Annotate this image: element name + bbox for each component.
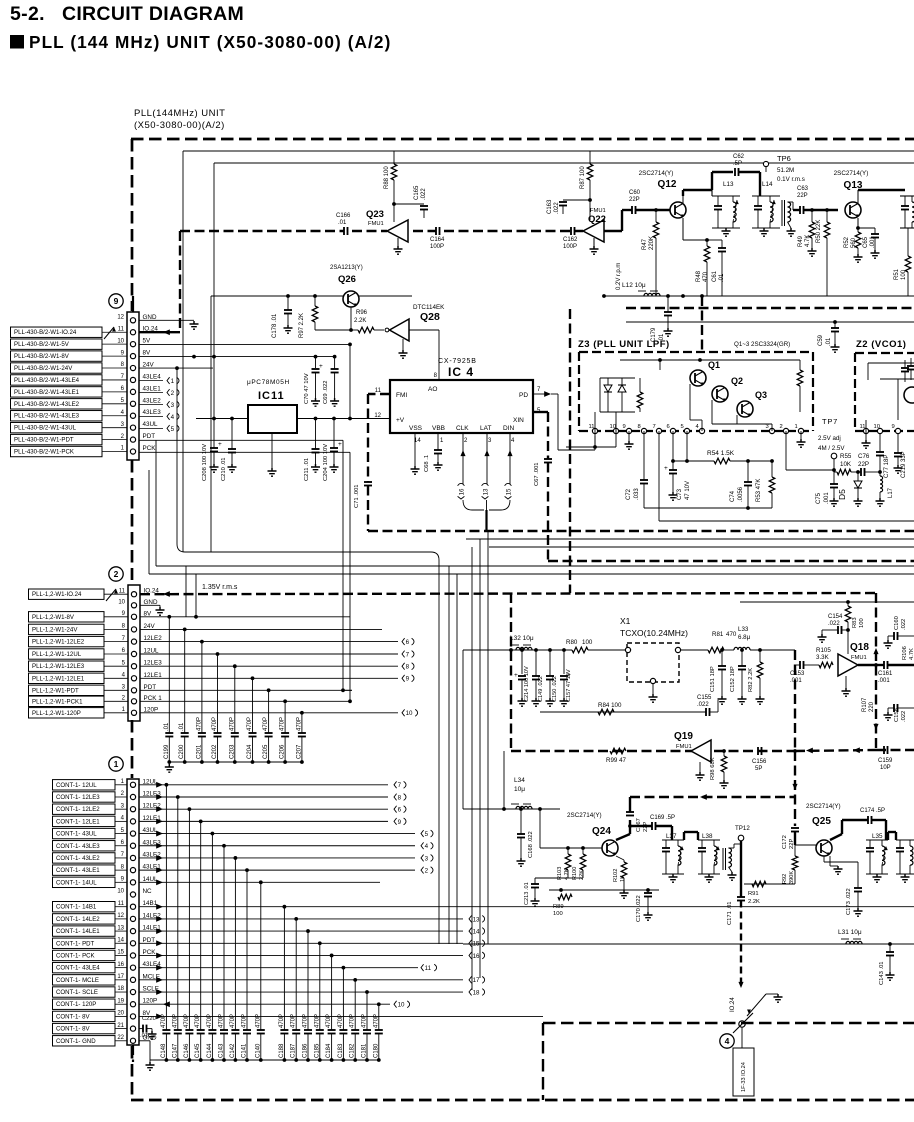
svg-text:R82 2.2K: R82 2.2K [748,668,754,692]
svg-text:C153: C153 [790,671,805,677]
connector 1 pin 7 (43LE2) [130,855,135,860]
svg-text:2: 2 [425,868,429,875]
svg-text:+V: +V [396,417,405,424]
svg-text:C140: C140 [255,1043,261,1058]
resistor R102 1K [616,856,624,860]
connector 1 pin 17 (MCLE) [130,977,135,982]
svg-text:PCK 1: PCK 1 [144,695,163,702]
wire label box PLL-1,2-W1-8V [29,612,105,622]
connector 1 pin 20 (8V) [130,1014,135,1019]
svg-text:19: 19 [117,998,124,1004]
svg-text:C74: C74 [730,490,736,502]
svg-text:1: 1 [114,759,119,769]
Z3 pin 4 [699,428,704,433]
wire PDT row from connector 9 [139,439,343,441]
wire label box CONT-1- 120P [53,999,116,1009]
connector 2 pin 4 (12LE1) [131,676,136,681]
svg-text:.001: .001 [824,492,830,504]
diode D5 [857,472,859,481]
wire FMI input dashed [368,393,390,395]
capacitor C165 .022 [394,203,424,205]
svg-text:C148: C148 [161,1043,167,1058]
wire connector 1 row 15 [139,954,463,956]
svg-text:11: 11 [860,424,866,430]
junction and capacitor C203 470P [233,664,237,668]
Z3 pin 10 [613,428,618,433]
connector 1 pin 16 (43LE4) [130,965,135,970]
svg-text:470P: 470P [196,717,202,731]
wire dashed TCXO shield corner x=511 [510,593,512,751]
svg-text:2SA1213(Y): 2SA1213(Y) [330,265,363,271]
svg-text:120P: 120P [143,998,158,1005]
wire dashed bus y=561 [548,560,914,562]
ground Z3 pin1 [800,431,802,439]
resistor R51 100 [907,228,909,256]
junction + capacitor C146 470P [188,807,192,811]
wire connector 1 row 4 [139,820,388,822]
svg-text:L14: L14 [762,181,773,188]
junction and capacitor C205 470P [267,688,271,692]
coupling winding to TP12 [722,848,724,870]
junction + capacitor C142 470P [234,856,238,860]
svg-text:22: 22 [117,1035,124,1041]
wire connector 1 capacitor rail [150,1059,379,1061]
svg-text:13: 13 [473,916,480,923]
svg-text:C173 .022: C173 .022 [846,888,852,915]
wire label box PLL-430-B/2-W1-43LE4 [11,375,103,385]
wire thick dashed IO.24 bus y=593 [140,593,876,594]
svg-text:R49: R49 [798,235,804,247]
wire corner into Q18 input [794,650,796,665]
connector 9 pin 10 (5V) [130,342,135,347]
svg-text:PLL-430-B/2-W1-8V: PLL-430-B/2-W1-8V [14,353,70,360]
Z3 pin 11 [592,428,597,433]
wire IO.24 thick from pin 11 [139,331,180,333]
svg-text:R54 1.5K: R54 1.5K [707,450,735,457]
capacitor C60 22P [631,206,633,214]
svg-text:10P: 10P [880,765,891,771]
connector 1 pin 11 (14B1) [130,904,135,909]
capacitor C161 .001 [876,664,884,666]
capacitor C77 18P [879,431,881,452]
junction + capacitor C187 470P [294,917,298,921]
wire label box PLL-1,2-W1-12UL [29,649,105,659]
output tank at right edge [900,195,914,197]
svg-text:R105: R105 [816,647,831,654]
capacitor C213 .01 [534,878,536,884]
svg-text:17: 17 [117,974,124,980]
svg-text:1: 1 [171,378,175,385]
svg-text:CONT-1- 12LE3: CONT-1- 12LE3 [56,794,100,801]
wire label box CONT-1- 43LE3 [53,841,116,851]
svg-text:12LE3: 12LE3 [144,660,163,667]
wire connector 2 capacitor rail [169,761,303,763]
wire LAT pin with reference 13 [486,433,488,484]
wire thick dashed FMU1 bus y=231 [180,230,344,232]
junction and capacitor C206 470P [283,699,287,703]
svg-text:3: 3 [171,402,175,409]
wire Z3 pin5 to R54 node [686,431,688,461]
resistor R96 2.2K [351,329,358,331]
svg-text:470P: 470P [247,717,253,731]
wire connector 2 row y=712.8 [140,712,302,714]
junction + capacitor C182 470P [353,978,357,982]
connector 1 pin 18 (SCLE) [130,989,135,994]
svg-text:6: 6 [398,807,402,814]
capacitor C63 22P [793,209,800,211]
svg-text:4: 4 [425,843,429,850]
svg-text:TCXO(10.24MHz): TCXO(10.24MHz) [620,628,688,638]
wire FMI dashed riser x=702 [701,296,703,352]
wire connector 1 row 14 [139,942,463,944]
junction + capacitor C148 470P [165,783,169,787]
svg-text:+: + [218,441,222,448]
wire label box PLL-430-B/2-W1-24V [11,363,103,373]
op-amp buffer Q22 FMU1 [583,220,604,242]
resistor R92 390K [794,845,796,856]
svg-text:PLL (144 MHz) UNIT (X50-3080-0: PLL (144 MHz) UNIT (X50-3080-00) (A/2) [29,32,391,52]
svg-text:43UL: 43UL [143,421,159,428]
svg-text:D5: D5 [837,489,847,500]
wire PDT drop x=343 [342,440,344,690]
svg-text:(X50-3080-00)(A/2): (X50-3080-00)(A/2) [134,120,225,131]
wire connector 1 row 8 [139,869,415,871]
svg-text:10: 10 [117,889,124,895]
svg-text:470P: 470P [263,717,269,731]
wire label box PLL-1,2-W1-12LE3 [29,661,105,671]
connector 9 pin 4 (43LE3) [130,413,135,418]
svg-text:220: 220 [869,701,875,712]
svg-text:C161: C161 [878,671,893,677]
junction + capacitor C143 470P [222,844,226,848]
svg-text:560: 560 [851,237,857,248]
wire label box CONT-1- PDT [53,938,116,948]
wire connector 1 row 19 [139,1003,390,1005]
svg-text:C143: C143 [219,1043,225,1058]
wire connector 1 row 13 [139,930,463,932]
connector 9 pin 8 (24V) [130,365,135,370]
wire long vertical x=439 [438,560,440,944]
svg-text:R92: R92 [782,874,788,884]
connector 9 strip [127,312,139,460]
svg-text:.022: .022 [901,711,907,722]
svg-text:10: 10 [118,600,125,606]
svg-text:PLL-1,2-W1-PCK1: PLL-1,2-W1-PCK1 [32,698,83,705]
junction PCK from connector 9 [348,699,352,703]
svg-text:CONT-1- 12LE2: CONT-1- 12LE2 [56,806,100,813]
connector 9 pin 7 (43LE4) [130,377,135,382]
capacitor C59 .01 [834,322,836,328]
reference 7 from 12UL [402,651,405,658]
svg-text:15: 15 [473,941,480,948]
svg-text:.001: .001 [878,678,890,684]
resistor R49 4.7K [811,210,813,222]
output arrow to connector 4 [747,994,766,1016]
subtitle: PLL (144 MHz) UNIT (X50-3080-00) (A/2) [10,35,24,49]
svg-text:C178 .01: C178 .01 [272,313,278,338]
svg-text:8: 8 [638,424,641,430]
svg-text:5P: 5P [755,766,762,772]
svg-text:PLL-430-B/2-W1-PDT: PLL-430-B/2-W1-PDT [14,437,74,444]
svg-text:C181: C181 [362,1043,368,1058]
references rows 12-15 [469,915,472,922]
svg-text:Q2: Q2 [731,376,743,386]
Z3 pin 1 [798,428,803,433]
wire bus y=539 [466,538,914,540]
connector 2 pin 1 (120P) [131,710,136,715]
wire bus y=521 [659,520,914,522]
svg-text:4: 4 [725,1036,730,1046]
wire bias rail y=296 [211,295,412,297]
connector 1 pin 22 (GND) [130,1038,135,1043]
svg-text:C204 100 10V: C204 100 10V [323,444,329,481]
capacitor C61 .01 [707,239,722,241]
capacitor C179 .01 [667,296,669,312]
wire 43LE2 row to ref 3 [139,404,163,406]
connector 9 pin 2 (PDT) [130,437,135,442]
svg-text:470P: 470P [373,1014,379,1028]
svg-text:L37: L37 [666,833,677,840]
junction + capacitor C144 470P [211,832,215,836]
svg-text:C168 .022: C168 .022 [528,831,534,858]
capacitor C70 47 10V [315,357,317,368]
svg-text:1.35V r.m.s: 1.35V r.m.s [202,584,238,591]
svg-text:C141: C141 [242,1043,248,1058]
svg-text:PLL-1,2-W1-120P: PLL-1,2-W1-120P [32,710,81,717]
svg-text:R106: R106 [902,646,908,660]
svg-text:11: 11 [119,588,126,594]
svg-text:.01: .01 [164,722,170,731]
wire connector 1 row 6 [139,845,415,847]
connector 9 pin 12 (GND) [130,318,135,323]
svg-text:C183: C183 [338,1043,344,1058]
wire label box CONT-1- 14B1 [53,902,116,912]
svg-text:5: 5 [425,831,429,838]
svg-text:C162: C162 [563,237,578,243]
svg-text:16: 16 [473,953,480,960]
svg-text:CONT-1- 120P: CONT-1- 120P [56,1001,96,1008]
resistor R91 2.2K [744,883,795,885]
reference row 19 120P [394,1001,397,1008]
wire IO.24 output column x=741 [740,841,742,897]
connector 4 circled number [720,1034,734,1048]
junction PDT from connector 9 [341,688,345,692]
junction + capacitor C181 470P [365,990,369,994]
wire GND pin 22 to rail [139,1040,150,1042]
connector 1 pin 6 (43LE3) [130,843,135,848]
svg-text:22P: 22P [858,461,869,468]
svg-text:PDT: PDT [143,433,156,440]
wire label box CONT-1- 43LE2 [53,853,116,863]
Z2 pin 10 [877,428,882,433]
svg-text:2: 2 [780,424,783,430]
svg-text:.033: .033 [634,488,640,500]
wire long vertical x=457 [456,574,458,944]
wire TCXO output [680,649,708,651]
connector 2 pin 6 (12UL) [131,651,136,656]
wire 8V row [139,356,335,358]
svg-text:PLL-430-B/2-W1-5V: PLL-430-B/2-W1-5V [14,341,70,348]
svg-text:L33: L33 [738,626,749,633]
svg-text:C156: C156 [752,759,767,765]
svg-text:13: 13 [117,925,124,931]
connector 9 circled number [109,294,123,308]
svg-text:PLL-430-B/2-W1-43LE1: PLL-430-B/2-W1-43LE1 [14,389,80,396]
ground capacitor rail connector 2 [168,762,170,764]
svg-text:C163: C163 [547,199,553,214]
svg-text:CONT-1- PDT: CONT-1- PDT [56,940,95,947]
svg-text:22P: 22P [797,193,808,199]
Z3 pin 6 [670,428,675,433]
svg-text:C185: C185 [314,1043,320,1058]
wire bus y=547 [489,546,914,548]
wire label box CONT-1- 8V [53,1011,116,1021]
wire connector 1 row 2 [139,796,388,798]
svg-text:+: + [664,465,668,472]
svg-text:CONT-1- 43LE3: CONT-1- 43LE3 [56,843,100,850]
junction and capacitor C202 470P [216,652,220,656]
capacitor C167 22P [626,811,634,813]
svg-text:C59: C59 [818,334,824,346]
svg-text:16: 16 [458,488,465,495]
svg-text:R51: R51 [894,268,900,280]
capacitor C214 100 10V [521,650,523,674]
connector 1 pin 5 (43UL) [130,831,135,836]
svg-text:18: 18 [117,986,124,992]
wire connector 1 row 20 [139,1015,543,1017]
junction + capacitor C140 470P [259,880,263,884]
svg-text:.022: .022 [901,619,907,630]
svg-text:C164: C164 [430,237,445,243]
svg-text:FMU1: FMU1 [676,744,692,750]
svg-text:390K: 390K [789,871,795,884]
svg-text:+: + [514,672,518,679]
svg-text:C172: C172 [782,835,788,849]
svg-text:Q28: Q28 [420,311,440,323]
Z3 pin 5 [684,428,689,433]
svg-text:120P: 120P [144,706,159,713]
connector 9 pin 1 (PCK) [130,449,135,454]
wire label box PLL-1,2-W1-24V [29,624,105,634]
svg-text:C180: C180 [373,1043,379,1058]
svg-text:2: 2 [114,569,119,579]
svg-text:8V: 8V [144,610,153,617]
svg-text:14: 14 [117,937,124,943]
wire label box PLL-430-B/2-W1-IO.24 [11,327,103,337]
svg-text:9: 9 [892,424,895,430]
svg-text:.022: .022 [421,188,427,200]
connector 1 pin 12 (14LE2) [130,916,135,921]
svg-text:470P: 470P [362,1014,368,1028]
connector 2 pin 10 (GND) [131,603,136,608]
svg-text:.022: .022 [554,202,560,214]
reference 9 from 12LE1 [402,675,405,682]
svg-text:4M / 2.5V: 4M / 2.5V [818,445,845,452]
wire label box PLL-430-B/2-W1-43LE3 [11,411,103,421]
svg-text:Q19: Q19 [674,731,693,742]
ground Z3 pin 9 [628,431,630,441]
svg-text:2: 2 [171,390,175,397]
svg-text:C77 18P: C77 18P [884,455,890,478]
svg-text:C220: C220 [142,1016,156,1022]
capacitor C74 .0056 [747,461,749,482]
Z3 internal top rail [620,359,800,361]
svg-text:C201: C201 [196,744,202,759]
resistor R97 2.2K [314,296,316,306]
junction + capacitor C180 470P [377,1002,381,1006]
svg-text:220K: 220K [649,236,655,250]
wire connector 1 row 12 [139,918,463,920]
svg-text:.01: .01 [140,1033,148,1039]
svg-text:C204: C204 [247,744,253,759]
references rows 1-4 [394,781,397,788]
connector 2 pin 2 (PCK 1) [131,699,136,704]
wire dashed riser x=795 to Q25 [794,751,796,826]
wire dashed riser x=570 [569,309,571,593]
svg-text:+: + [319,363,323,370]
svg-text:9: 9 [114,296,119,306]
svg-text:470P: 470P [195,1014,201,1028]
connector 4 pin [739,1021,745,1027]
svg-text:C68 .1: C68 .1 [424,455,430,472]
svg-text:20: 20 [117,1011,124,1017]
capacitor C73 47 10V [672,431,674,461]
svg-text:CONT-1- 14UL: CONT-1- 14UL [56,879,97,886]
svg-text:C152 18P: C152 18P [730,666,736,692]
resistor R103 4.7K [567,848,569,854]
svg-text:8V: 8V [143,350,152,357]
connector 9 pin 11 (IO.24) [130,330,135,335]
wire 43LE4 row to ref 1 [139,380,163,382]
outer dashed boundary of PLL unit [131,138,914,141]
svg-text:CONT-1- 8V: CONT-1- 8V [56,1013,90,1020]
wire PD output pin 7 [533,393,545,395]
mating connector arrow on IO.24 lead [104,327,114,339]
capacitor C72 .033 [643,431,645,480]
svg-text:14UL: 14UL [143,876,159,883]
connector 4 cable label IF-33 IO.24 [741,1027,743,1048]
svg-text:DIN: DIN [503,425,515,432]
wire label box PLL-1,2-W1-120P [29,708,105,718]
svg-text:C76: C76 [858,453,870,460]
resistor R88 100 [393,151,395,164]
capacitor C156 5P [757,747,759,755]
junction + capacitor C141 470P [245,868,249,872]
capacitor C71 .001 in FMI line [364,481,372,483]
svg-text:C187: C187 [291,1043,297,1058]
wire label box PLL-430-B/2-W1-43UL [11,422,103,432]
svg-text:470P: 470P [161,1014,167,1028]
wire emitter rail y=890 [549,889,659,891]
wire connector 1 row 5 [139,833,415,835]
wire XIN pin 5 dashed to crystal bus [533,411,548,413]
svg-text:CONT-1- GND: CONT-1- GND [56,1038,96,1045]
svg-text:Q1~3 2SC3324(GR): Q1~3 2SC3324(GR) [734,341,790,348]
Z3 resistor right [799,360,801,370]
svg-text:PLL-430-B/2-W1-PCK: PLL-430-B/2-W1-PCK [14,449,74,456]
svg-text:470P: 470P [326,1014,332,1028]
capacitor C166 .01 [343,227,345,235]
connector 2 pin 5 (12LE3) [131,664,136,669]
svg-text:.01: .01 [179,722,185,731]
svg-text:L35: L35 [872,833,883,840]
svg-text:43LE3: 43LE3 [143,409,162,416]
wire label box CONT-1- 43LE4 [53,962,116,972]
wire TCXO signal line y=650 [463,649,572,651]
resistor R83 100 [847,602,849,606]
capacitor C178 .01 [287,296,289,310]
svg-text:24V: 24V [144,623,156,630]
